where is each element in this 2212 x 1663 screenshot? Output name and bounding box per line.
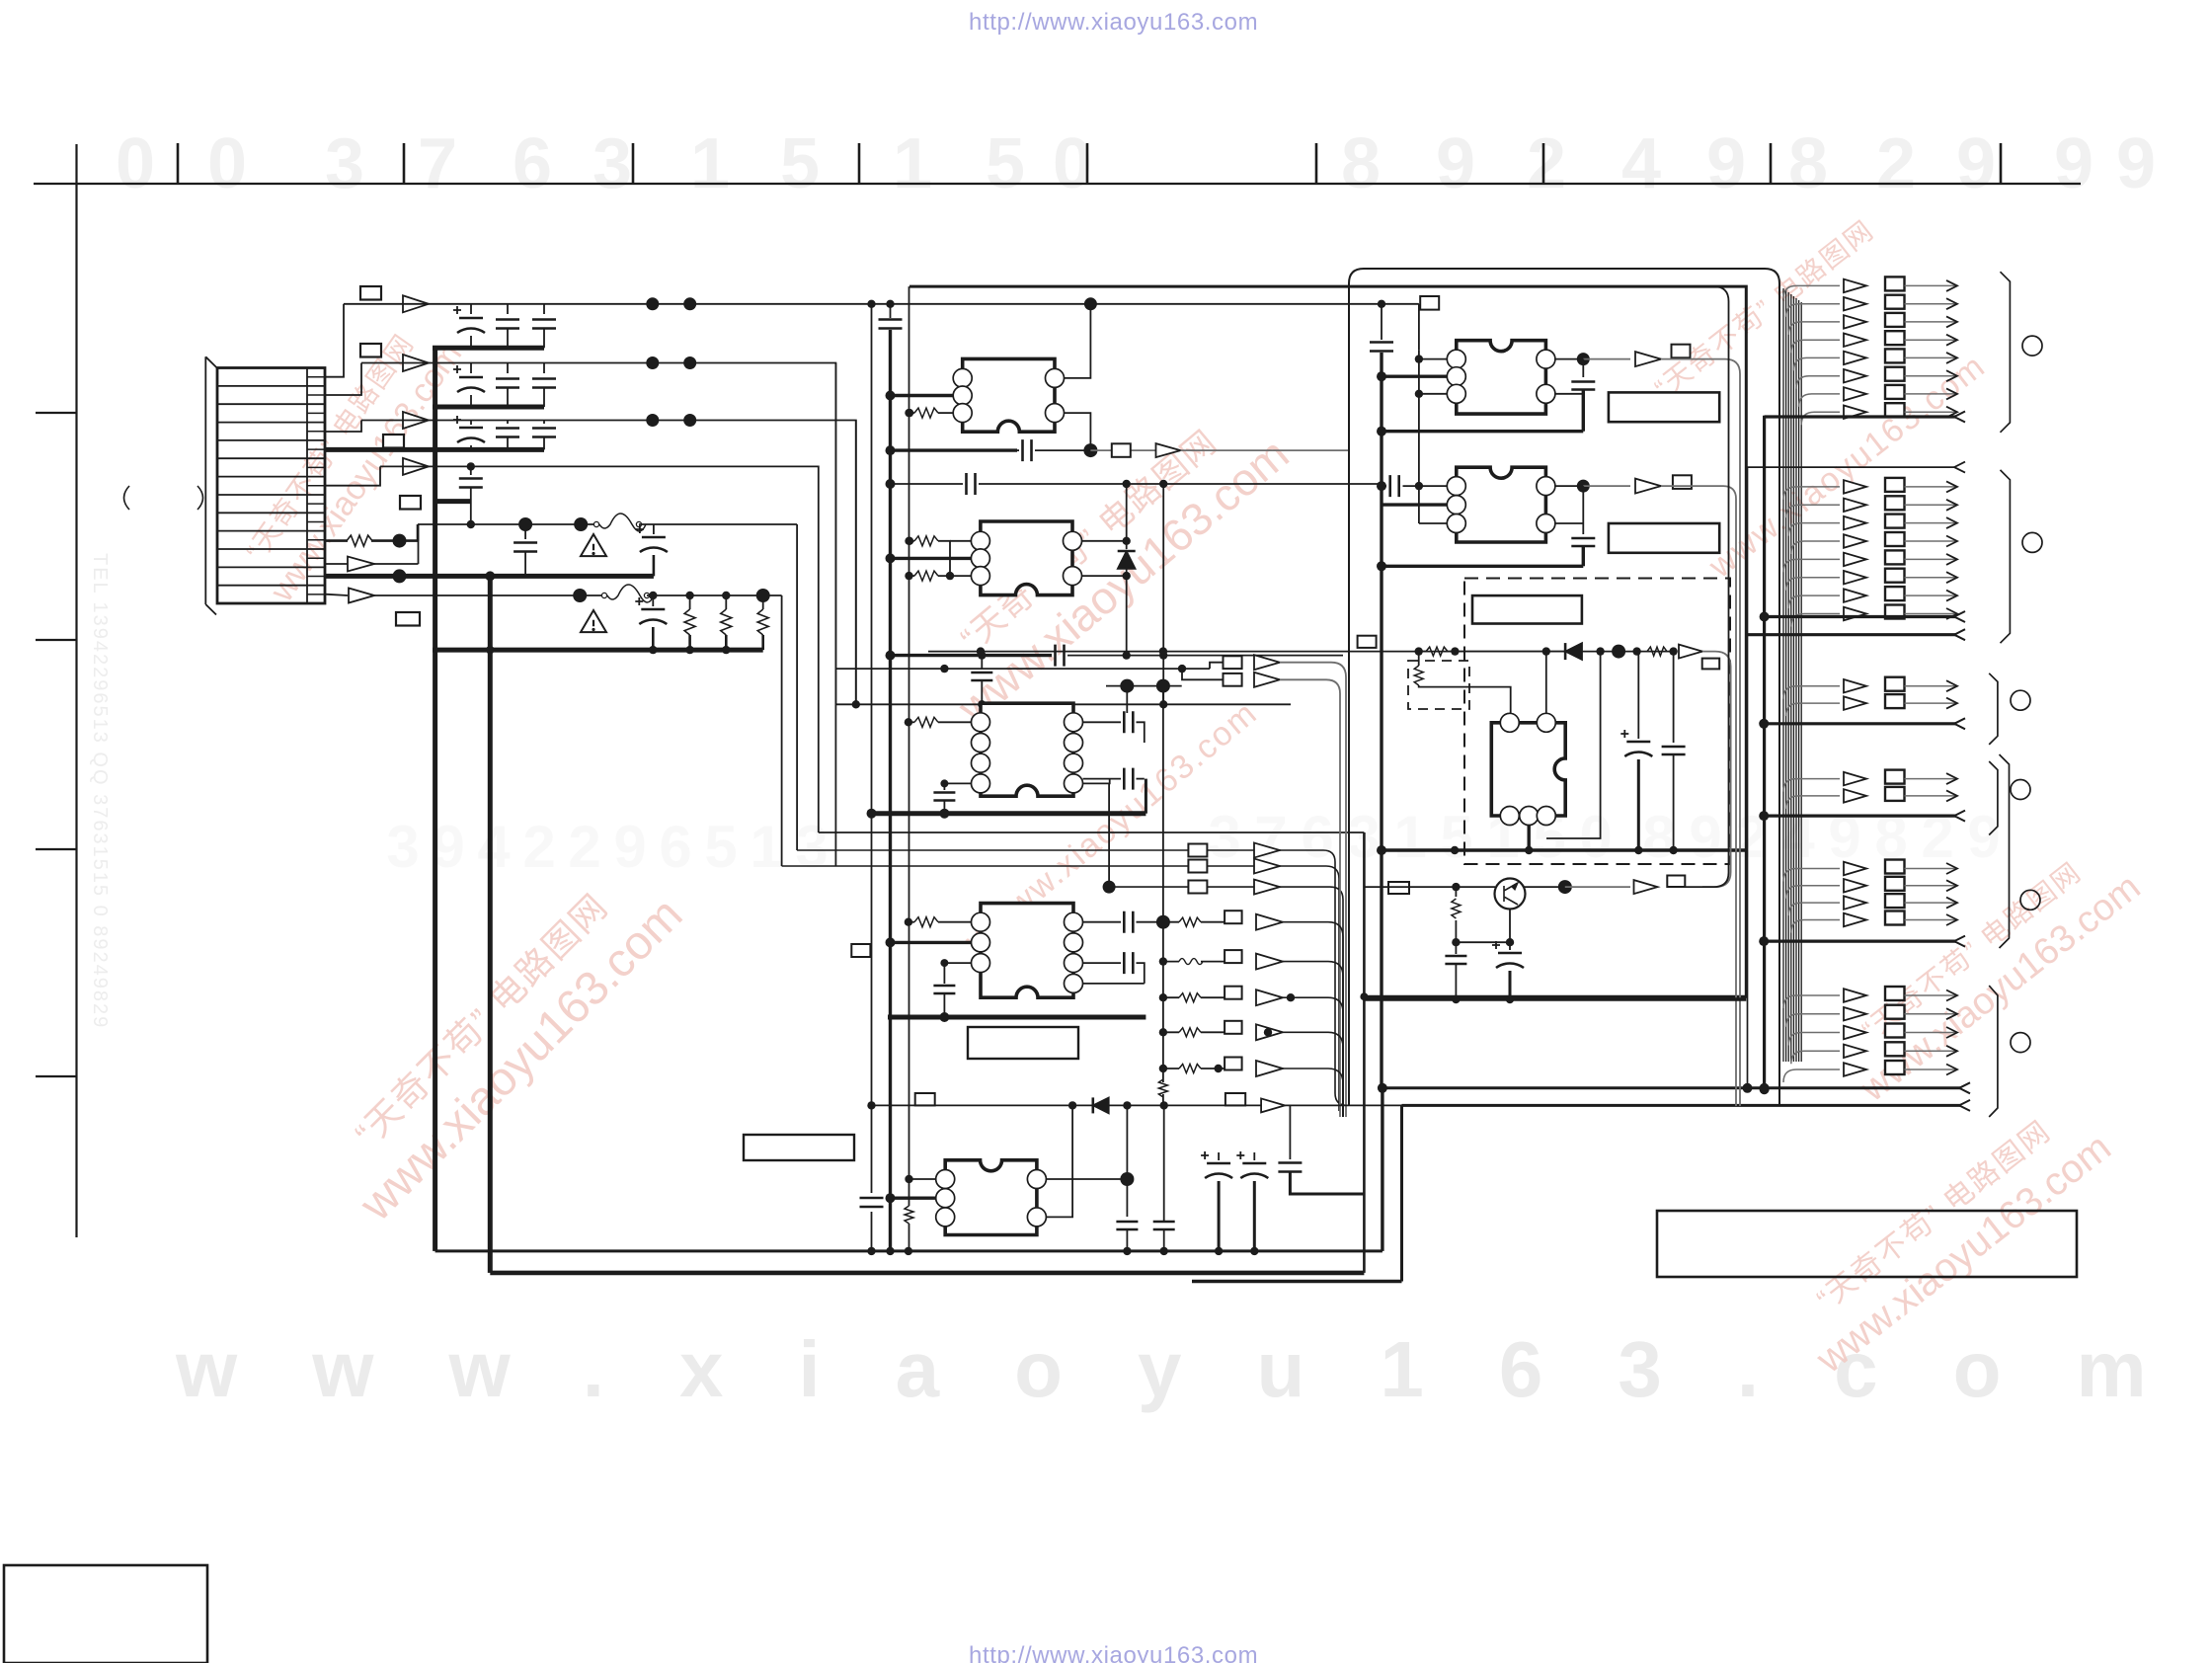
- ruler left line: [75, 144, 77, 1237]
- capacitor C23 U4 pin3: [943, 963, 945, 984]
- wire x1141 vertical: [1126, 686, 1128, 713]
- signal arrow G5-1: [1783, 869, 1840, 882]
- junction dots collector 2: [486, 646, 494, 654]
- capacitor C14 inline x882: [860, 1198, 884, 1207]
- wire fan row out: [1283, 1032, 1343, 1117]
- capacitor C34 U7 right: [1555, 486, 1583, 534]
- value box Q1 out: [1667, 876, 1685, 888]
- signal arrow G3-2: [1786, 703, 1840, 716]
- signal arrow G6-4: [1791, 1051, 1840, 1064]
- return arrow G3 thick: [1764, 722, 1956, 725]
- capacitor C10 row D: [470, 466, 472, 475]
- buffer pair 1: [1254, 655, 1280, 670]
- watermark pink 7: [1781, 1092, 2119, 1383]
- signal arrow G1-7: [1799, 394, 1840, 407]
- resistor R4 shunt: [762, 595, 764, 609]
- watermark pink 5: [1649, 214, 1880, 404]
- wire U4 pin3: [944, 962, 971, 964]
- value box U1 out: [1112, 443, 1131, 457]
- IC U8: [1491, 723, 1565, 816]
- arrow row 1102: [1959, 1082, 1970, 1093]
- signal arrow G2-8: [1791, 614, 1840, 627]
- ruler top line: [34, 183, 2081, 185]
- wire U1 out row: [1090, 449, 1155, 451]
- wire x1177 vertical b: [1162, 686, 1164, 922]
- svg-text:8: 8: [1788, 124, 1828, 203]
- signal arrow G2-6: [1786, 578, 1840, 591]
- wire vertical x1381: [1363, 832, 1366, 1273]
- signal arrow G1-3: [1788, 322, 1840, 335]
- bus stub row D: [435, 499, 471, 504]
- signal arrow G5-4: [1791, 920, 1840, 933]
- junction dots x1177: [1156, 915, 1170, 929]
- signal arrow G6-5: [1783, 1069, 1840, 1082]
- wire x1620 down: [1546, 652, 1601, 838]
- buffer pair 2: [1254, 673, 1280, 687]
- watermark pink 3: [918, 393, 1299, 734]
- capacitor C4 electrolytic row B: [470, 363, 472, 374]
- return arrows G6: [1760, 1084, 1770, 1094]
- wire row 861 thick: [1382, 848, 1746, 851]
- svg-text:5: 5: [1440, 804, 1472, 870]
- value box row I: [396, 612, 420, 626]
- transistor Q1: [1495, 879, 1526, 910]
- value box U6 out: [1672, 345, 1691, 358]
- wire fan row out: [1283, 922, 1343, 1117]
- value box row A: [360, 286, 381, 300]
- IC U3: [981, 703, 1073, 796]
- capacitor C13 electrolytic fuse row 2: [652, 595, 654, 606]
- junction dot fuse row 2: [573, 589, 587, 602]
- buffer row A: [403, 295, 429, 312]
- value box row B: [360, 344, 381, 357]
- signal arrow G1-4: [1791, 340, 1840, 353]
- capacitor C9 row C: [543, 421, 545, 425]
- wire U3 bottom right up: [1145, 779, 1147, 814]
- fuse FB2 row 2: [601, 593, 606, 597]
- resistor R17 dashed: [1414, 666, 1423, 685]
- pad circle group 2: [2022, 532, 2042, 552]
- value box row 861: [1188, 844, 1207, 857]
- resistor R3 shunt: [725, 595, 727, 609]
- wire U7 out cont: [1661, 486, 1736, 1106]
- wire U4 right bus down: [1162, 922, 1164, 1082]
- svg-text:3: 3: [795, 814, 828, 880]
- wire Q1 out: [1565, 886, 1630, 888]
- value box row 659 left: [1358, 636, 1377, 648]
- wire row D from connector: [325, 466, 380, 485]
- wire x1177 to row 1119: [1162, 1094, 1164, 1105]
- bus U6 bottom thick: [1382, 430, 1583, 433]
- resistor R9 U4 pin1: [908, 921, 914, 923]
- wire U1 pin3 bus vertical x921: [908, 286, 910, 1206]
- svg-text:1: 1: [893, 124, 932, 203]
- capacitor C26 x1141: [1116, 1222, 1138, 1229]
- svg-text:4: 4: [477, 814, 511, 880]
- buffer fan row: [1256, 954, 1283, 970]
- wire x1178 vertical: [1162, 484, 1164, 704]
- capacitor C11 electrolytic fuse row 1: [653, 524, 655, 534]
- capacitor C3 row A: [543, 304, 545, 314]
- wire U8 bottom thick: [1527, 826, 1530, 851]
- diode D2 row 1119: [1093, 1097, 1109, 1113]
- svg-text:4: 4: [1621, 124, 1661, 203]
- buffer fan row: [1256, 1024, 1283, 1040]
- title box: [1657, 1211, 2077, 1277]
- capacitor C5 row B: [507, 363, 509, 374]
- wire U2 right pin2: [1082, 569, 1127, 576]
- wire Q1 collector: [1524, 886, 1565, 888]
- capacitor C33 U7 pin1 series: [1382, 485, 1386, 487]
- signal arrow G1-8: [1801, 412, 1840, 425]
- wire row 1119 exit: [1402, 1104, 1962, 1107]
- value box riser: [1420, 296, 1439, 310]
- watermark pink 6: [1827, 833, 2148, 1110]
- resistor R19 below row898: [1455, 887, 1457, 897]
- svg-text:5: 5: [780, 124, 820, 203]
- signal arrow G2-1: [1783, 487, 1840, 500]
- diode D3 row 659: [1565, 643, 1582, 660]
- svg-text:9: 9: [1706, 124, 1746, 203]
- signal arrow G2-4: [1791, 541, 1840, 554]
- wire row 898 through Q1: [1364, 886, 1495, 888]
- wire row 490: [891, 483, 964, 485]
- watermark digits row 2: [386, 804, 2000, 880]
- value box fan row: [1224, 911, 1242, 923]
- wire x1306 up: [1289, 1106, 1291, 1148]
- buffer row B: [403, 355, 429, 371]
- wire U1 right pin2 down: [1065, 413, 1091, 450]
- label box U4: [968, 1027, 1078, 1059]
- svg-text:6: 6: [1301, 804, 1333, 870]
- wire U2 pin2 thick: [891, 557, 972, 560]
- wire row E resistor from connector: [325, 539, 348, 542]
- svg-text:8: 8: [1341, 124, 1381, 203]
- frame B2 left: [1348, 296, 1350, 1106]
- value box fan row: [1224, 987, 1242, 999]
- label box dashed: [1472, 595, 1582, 623]
- bus U3 bottom thick: [872, 811, 1146, 816]
- wire row I from connector: [325, 594, 348, 595]
- svg-text:8: 8: [1642, 804, 1675, 870]
- svg-text:www.xiaoyu163.com: www.xiaoyu163.com: [175, 1325, 2212, 1413]
- resistor R12 fan row: [1179, 993, 1201, 1002]
- junction dots fuse row 1: [467, 520, 475, 528]
- buffer row 1119: [1261, 1098, 1285, 1112]
- junction dots row A: [646, 297, 659, 310]
- connector CN1 bracket: [205, 356, 216, 614]
- svg-text:9: 9: [1828, 804, 1860, 870]
- bracket group 3: [1989, 673, 1998, 745]
- corner box bottom-left: [4, 1565, 207, 1663]
- buffer U6 out: [1635, 352, 1661, 366]
- wire U3 right pins: [1083, 779, 1110, 784]
- capacitor C8 row C: [507, 421, 509, 425]
- wire row 677: [835, 668, 1210, 670]
- capacitor C18 U2 bottom: [1056, 645, 1065, 667]
- wire fan row out: [1283, 962, 1343, 1117]
- svg-text:2: 2: [1921, 804, 1953, 870]
- fuse FB1 row 1: [593, 521, 598, 526]
- buffer row I: [349, 589, 374, 603]
- capacitor C32 U6 right: [1582, 359, 1584, 377]
- svg-text:9: 9: [1436, 124, 1475, 203]
- return arrow mid thin: [1748, 466, 1957, 468]
- junction dots bus bottom 1: [867, 1247, 875, 1255]
- resistor R2 shunt: [689, 595, 691, 609]
- capacitor C2 row A: [507, 304, 509, 314]
- frame B2 top: [1349, 269, 1779, 1106]
- collector x1786 thick: [1763, 416, 1766, 1089]
- wire row 861: [797, 850, 1347, 1105]
- junction dots fuse row 2 b: [649, 592, 657, 599]
- resistor R15 x1177 bottom: [1158, 1079, 1167, 1097]
- bus row C collector thick: [325, 447, 544, 452]
- pad circle group 3: [2011, 690, 2030, 710]
- resistor R18 row 659: [1647, 647, 1667, 656]
- bracket group 4: [1989, 761, 1998, 835]
- buffer row D: [403, 458, 429, 475]
- svg-text:9: 9: [1967, 804, 2000, 870]
- capacitor C37: [1455, 942, 1457, 954]
- svg-text:http://www.xiaoyu163.com: http://www.xiaoyu163.com: [969, 1642, 1258, 1663]
- svg-text:2: 2: [522, 814, 555, 880]
- junction dot row E: [393, 534, 407, 548]
- label box U6: [1609, 392, 1719, 422]
- IC U1: [963, 358, 1055, 432]
- wire pair 1 out: [1280, 663, 1346, 1117]
- buffer U7 out: [1635, 479, 1661, 494]
- svg-text:1: 1: [690, 124, 730, 203]
- svg-text:6: 6: [659, 814, 691, 880]
- svg-text:2: 2: [1527, 124, 1566, 203]
- junction dots fan: [1215, 1065, 1223, 1072]
- wire row C from connector: [325, 421, 361, 433]
- arrow row 1119 exit: [1959, 1100, 1970, 1111]
- resistor R14 fan row: [1179, 1065, 1201, 1073]
- wire x1141 down: [1126, 1105, 1128, 1217]
- watermark pink 1: [229, 313, 469, 609]
- resistor R5 U1 pin3: [909, 412, 914, 414]
- wire box pair feeds: [1182, 663, 1224, 680]
- wire row 290 long: [909, 286, 1746, 996]
- wire U2 pin1: [950, 540, 971, 542]
- wire U7 out: [1583, 485, 1630, 487]
- wire row 659 right: [1582, 651, 1674, 653]
- value box U7 out: [1673, 475, 1692, 489]
- wire U7 pin3: [1419, 522, 1447, 524]
- wire row B: [361, 363, 835, 867]
- buffer fan row: [1256, 1061, 1283, 1076]
- bus transistor bottom thick: [1364, 997, 1746, 1000]
- resistor R1 row E: [347, 535, 372, 546]
- wire x1769 riser: [1747, 467, 1749, 1088]
- capacitor C27 x1178: [1153, 1222, 1175, 1229]
- svg-text:2: 2: [568, 814, 600, 880]
- svg-text:9: 9: [1956, 124, 1996, 203]
- pad circle group 6: [2011, 1033, 2030, 1053]
- capacitor C28 electrolytic: [1218, 1152, 1220, 1160]
- wire row A: [344, 303, 1419, 305]
- bus U1 bottom row thick: [891, 448, 1018, 451]
- capacitor C7 electrolytic row C: [470, 421, 472, 426]
- parenthesis left: [124, 486, 130, 510]
- signal arrow G6-2: [1786, 1014, 1840, 1027]
- wire U5 right pin1: [1046, 1178, 1127, 1180]
- wire U3 pin4: [944, 782, 971, 784]
- svg-text:1: 1: [750, 814, 782, 880]
- wire dashed L: [1419, 685, 1511, 713]
- svg-text:9: 9: [2054, 124, 2093, 203]
- wire row 659 exit: [1702, 652, 1731, 888]
- capacitor C12 fuse row 1: [524, 524, 526, 539]
- bracket group 1: [2001, 272, 2011, 433]
- wire row E: [371, 539, 418, 542]
- IC U4: [981, 904, 1073, 998]
- junction dots row C: [646, 414, 659, 427]
- bus V1 thick: [433, 348, 437, 1251]
- bus bottom 1: [435, 1249, 1382, 1252]
- watermark digits row 1: [116, 124, 2156, 203]
- wire staircase row F1 down: [796, 524, 798, 850]
- junction dots row 659 right: [1596, 647, 1604, 655]
- wire fuse row 2 cont: [647, 594, 782, 596]
- wire row D: [380, 466, 819, 832]
- return arrow G2 thick: [1765, 615, 1956, 618]
- bus row H thick: [325, 574, 654, 579]
- svg-text:5: 5: [704, 814, 737, 880]
- wire U6 out: [1583, 358, 1630, 360]
- wire row 898 gray: [1109, 887, 1343, 1111]
- buffer row 861: [1254, 843, 1280, 858]
- wire x1178 down2: [1163, 1105, 1165, 1221]
- wire row 1119 right: [1400, 1105, 1403, 1281]
- wire U7 pin1: [1419, 485, 1447, 487]
- bus segment row B caps: [433, 405, 544, 410]
- svg-text:0: 0: [207, 124, 247, 203]
- parenthesis right: [197, 486, 203, 510]
- wire U5 pin2 thick: [891, 1196, 936, 1199]
- bus bottom 3: [1192, 1280, 1402, 1283]
- value box left x882: [851, 944, 870, 957]
- wire row 713: [835, 703, 1291, 705]
- signal arrow G5-3: [1788, 903, 1840, 915]
- wire row G: [374, 524, 419, 564]
- junction dots row B: [646, 356, 659, 369]
- wire staircase row B down: [834, 363, 836, 705]
- capacitor C31 inline x1399: [1370, 343, 1393, 352]
- capacitor C30: [1289, 1148, 1291, 1159]
- wire U6 pin3: [1419, 393, 1447, 395]
- signal arrow G2-2: [1786, 505, 1840, 517]
- wire U5 pin1: [908, 1178, 936, 1180]
- warning symbol 2: [581, 610, 606, 632]
- bus bottom 1 right riser: [1381, 1088, 1383, 1251]
- capacitor C24 U4 right pin1: [1083, 921, 1122, 923]
- wire U3 top dots: [1106, 685, 1182, 687]
- resistor R8 U3 pin1: [908, 721, 914, 723]
- warning symbol 1: [581, 534, 606, 556]
- svg-text:0: 0: [1579, 804, 1612, 870]
- svg-text:9: 9: [1689, 804, 1721, 870]
- value box pair 1: [1224, 656, 1242, 669]
- junction dot row 898: [1452, 883, 1460, 891]
- watermark pink 4: [958, 694, 1265, 961]
- bus segment row A caps: [433, 346, 544, 351]
- capacitor C22 U3 right pin4: [1083, 778, 1122, 780]
- svg-text:9: 9: [2116, 124, 2156, 203]
- value box fan row: [1224, 1058, 1242, 1070]
- wire fuse row 2: [374, 594, 601, 596]
- bus vertical x901 top: [890, 304, 892, 318]
- svg-text:9: 9: [613, 814, 646, 880]
- capacitor C16 U1 bottom: [1017, 449, 1019, 451]
- capacitor C1 electrolytic row A: [470, 304, 472, 314]
- wire row A from connector: [325, 304, 344, 377]
- buffer row 898: [1254, 880, 1280, 895]
- signal arrow G2-5: [1783, 559, 1840, 572]
- ruler ticks top: [177, 143, 180, 184]
- value box fan row: [1224, 1021, 1242, 1034]
- wire bundle verticals: [1782, 288, 1784, 1062]
- wire row 1119: [872, 1104, 1402, 1106]
- wire riser x1750: [1685, 286, 1729, 887]
- buffer fan row: [1256, 914, 1283, 930]
- wire row 1102: [1382, 1086, 1961, 1089]
- signal arrow G3-1: [1783, 686, 1840, 699]
- capacitor C29 electrolytic: [1253, 1152, 1255, 1160]
- bus U2 bottom row thick: [891, 654, 1053, 657]
- value box row 1119 b: [1225, 1093, 1245, 1105]
- bus U7 bottom thick: [1382, 565, 1583, 568]
- resistor R20 inline x920: [905, 1206, 913, 1224]
- capacitor C6 row B: [543, 363, 545, 374]
- signal arrow G6-3: [1788, 1033, 1840, 1046]
- junction dots row H: [393, 569, 407, 583]
- value box row 877: [1188, 860, 1207, 873]
- wire row 877: [782, 866, 1339, 1111]
- signal arrow G4-1: [1783, 779, 1840, 792]
- signal arrow G1-5: [1793, 357, 1840, 370]
- buffer Q1 out: [1634, 880, 1658, 894]
- wire x1399 vertical thick: [1380, 353, 1382, 1088]
- resistor R13 fan row: [1179, 1028, 1201, 1037]
- IC U6: [1457, 341, 1546, 414]
- value box row 659 exit: [1702, 659, 1720, 670]
- label box U7: [1609, 523, 1719, 553]
- svg-text:3: 3: [1208, 804, 1240, 870]
- wire U6 pin1: [1419, 350, 1447, 394]
- wire U6 pin2 thick: [1382, 375, 1447, 378]
- junction dot row D: [467, 462, 475, 470]
- capacitor C20 U3 pin4: [943, 783, 945, 790]
- svg-text:7: 7: [418, 124, 457, 203]
- capacitor C25 U4 right pin3: [1083, 962, 1122, 964]
- wire U1 right pin1 up: [1065, 304, 1091, 378]
- pad circle group 1: [2022, 336, 2042, 356]
- signal arrow G2-3: [1788, 523, 1840, 536]
- wire staircase row F2 down: [781, 595, 783, 866]
- junction dots row 1119: [1068, 1101, 1076, 1109]
- buffer row 659: [1679, 645, 1702, 659]
- bus U4 bottom thick: [888, 1015, 1145, 1020]
- dashed box control: [1464, 579, 1730, 865]
- wire U1 pin2 thick: [891, 394, 954, 397]
- signal arrow G1-2: [1786, 304, 1840, 317]
- buffer U1 out: [1156, 443, 1181, 457]
- wire diode node down: [1126, 576, 1128, 656]
- capacitor C36 right: [1673, 652, 1675, 743]
